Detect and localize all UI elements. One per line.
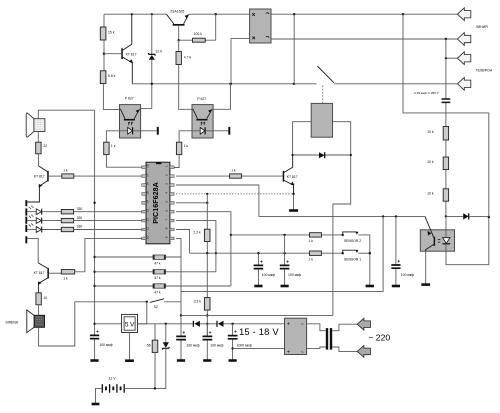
wire sensor2 row y=234.9 [231, 234, 310, 236]
svg-text:3: 3 [164, 183, 168, 185]
svg-text:47 k: 47 k [154, 262, 161, 266]
capacitor C2 100mkf [254, 253, 276, 286]
wire vertical x=403 loop right [403, 14, 490, 265]
svg-text:100 мкф: 100 мкф [401, 273, 414, 277]
svg-text:~: ~ [301, 350, 304, 356]
svg-text:16: 16 [146, 182, 150, 186]
svg-text:13: 13 [146, 209, 150, 213]
svg-text:10: 10 [43, 296, 47, 300]
svg-text:11: 11 [146, 227, 150, 230]
svg-text:15: 15 [146, 191, 150, 195]
capacitor C5 100mkf (bus) [90, 330, 113, 360]
svg-text:1 k: 1 k [63, 169, 68, 173]
wire relay K1 bottom-right / line rail y=39 [271, 38, 457, 40]
svg-text:12 V: 12 V [109, 377, 117, 381]
transistor Q2 2SA1625 [166, 10, 188, 42]
svg-text:SENSOR 2: SENSOR 2 [344, 239, 361, 243]
capacitor C4 100mkf (right) [391, 216, 414, 286]
svg-text:330: 330 [77, 225, 83, 229]
transistor Q5 KT817 (siren driver) [27, 238, 49, 292]
relay K2 [311, 103, 332, 137]
svg-text:6: 6 [164, 210, 168, 212]
resistor R3 100k [179, 14, 216, 42]
svg-text:4: 4 [164, 192, 168, 194]
capacitor C7 100mkf [203, 324, 224, 361]
svg-text:KT 817: KT 817 [126, 52, 137, 56]
svg-text:1 k: 1 k [308, 239, 313, 243]
wire diode supply row y=323.8 [138, 323, 286, 325]
svg-text:15 - 18 V: 15 - 18 V [239, 326, 279, 337]
svg-text:ЛИНИЯ: ЛИНИЯ [476, 25, 489, 29]
svg-text:PIC16F628A: PIC16F628A [151, 182, 160, 224]
svg-text:SENSOR 1: SENSOR 1 [344, 258, 361, 262]
connector arrow ~220 top [357, 318, 370, 330]
svg-text:12 V: 12 V [155, 49, 163, 53]
svg-text:2.2 k: 2.2 k [193, 231, 201, 235]
wire supply row y=315.4 [181, 314, 333, 316]
resistor R21 47k row3 [95, 284, 231, 295]
diode VD3 across coil [293, 152, 351, 158]
svg-text:10 k: 10 k [427, 191, 434, 195]
wire branch y=291.4 to opto U4 line [181, 216, 383, 291]
connector arrow ЛИНИЯ 1 [457, 8, 470, 21]
svg-text:SIRENA: SIRENA [5, 320, 18, 324]
svg-text:1 k: 1 k [63, 277, 68, 281]
voltage regulator U5 5V [95, 302, 147, 361]
wire relay K1 bottom-left to mid rail [231, 39, 250, 84]
wire pin3 to opto U4 collector [176, 185, 425, 218]
resistor R18 10 [36, 293, 47, 315]
svg-text:1 k: 1 k [111, 144, 116, 148]
resistor R23 1k (sensor1) [308, 251, 342, 262]
resistor R2 5.6k [100, 71, 119, 110]
svg-text:1: 1 [164, 165, 168, 167]
connector arrow ~220 bottom [357, 346, 370, 358]
wire mid rail y=83.8 [132, 83, 457, 85]
wire pin5 to node [176, 193, 209, 204]
zener VD9 [127, 324, 170, 389]
resistor R10 1k (pin2 to Q3) [176, 169, 242, 179]
svg-text:KT 817: KT 817 [34, 271, 45, 275]
wire bridge minus [233, 347, 286, 349]
svg-text:10 k: 10 k [427, 130, 434, 134]
svg-text:ТЕЛЕФОН: ТЕЛЕФОН [476, 68, 493, 72]
wire siren to switch S2 row [39, 301, 148, 346]
svg-text:2: 2 [164, 174, 168, 176]
svg-text:P 627: P 627 [197, 97, 206, 101]
switch S2 [150, 299, 181, 309]
resistor R20 47k row2 [95, 270, 216, 281]
ground Q3 emitter [289, 193, 298, 211]
transistor Q1 KT817 (top left) [104, 14, 137, 84]
svg-text:5.6 k: 5.6 k [108, 74, 116, 78]
svg-text:330: 330 [77, 216, 83, 220]
connector arrow ТЕЛЕФОН 1 [445, 52, 471, 65]
diode VD8 [217, 321, 224, 327]
bridge rectifier BR1 [285, 318, 307, 356]
svg-text:22: 22 [43, 144, 47, 148]
capacitor C6 100mkf [176, 331, 200, 360]
optocoupler U4 [420, 216, 454, 251]
svg-text:S2: S2 [154, 305, 158, 309]
svg-text:47 k: 47 k [154, 276, 161, 280]
resistor R15 330 [61, 216, 142, 223]
wire vertical x=294.2 [293, 14, 295, 84]
wire mic to bus [38, 110, 94, 119]
ground sensors [366, 285, 374, 288]
ground opto U4 emitter [421, 251, 430, 284]
wire pin8 to sensor row [176, 230, 190, 254]
LED VD4 row (pin13) [27, 206, 61, 215]
svg-text:100 мкф: 100 мкф [288, 273, 301, 277]
capacitor C1 0.33mkf 250V [414, 39, 450, 126]
optocoupler U2 P627 [120, 97, 141, 138]
resistor R19 47k row1 [95, 255, 181, 266]
capacitor C3 100mkf [280, 235, 302, 286]
wire pin6 chain down to 47k row3 [176, 212, 232, 286]
resistor R25 56 [147, 324, 158, 389]
svg-text:100 мкф: 100 мкф [210, 343, 223, 347]
svg-text:+: + [287, 321, 290, 327]
resistor R24 3.3k [194, 253, 210, 336]
svg-text:0.33 мкф X 250 V: 0.33 мкф X 250 V [414, 91, 440, 95]
svg-text:5: 5 [164, 201, 168, 203]
svg-text:1 k: 1 k [308, 258, 313, 262]
svg-text:4.7 k: 4.7 k [184, 55, 192, 59]
resistor R16 330 [61, 225, 142, 232]
svg-text:+: + [287, 349, 290, 355]
svg-text:P 627: P 627 [125, 97, 134, 101]
svg-text:18: 18 [146, 164, 150, 168]
svg-text:14: 14 [146, 200, 150, 204]
svg-text:100 мкф: 100 мкф [186, 343, 199, 347]
svg-text:KT 817: KT 817 [34, 175, 45, 179]
terminal jack U3 LED right [205, 127, 230, 135]
svg-text:15 k: 15 k [108, 31, 115, 35]
svg-text:8: 8 [164, 227, 168, 229]
wire U3 collector to rail [213, 84, 230, 110]
switch S1 [317, 66, 334, 103]
svg-text:5 V: 5 V [125, 322, 135, 329]
svg-text:12: 12 [146, 218, 150, 222]
transformer T1 [307, 324, 358, 352]
resistor R22 1k (sensor2) [308, 233, 342, 244]
wire relay K2 right lead [333, 122, 352, 316]
wire U3 LED left to R9 1k to pin1 [174, 131, 200, 168]
svg-text:100 мкф: 100 мкф [99, 343, 112, 347]
connector arrow ТЕЛЕФОН 2 [457, 77, 470, 90]
sensor SENSOR1 [342, 250, 371, 262]
svg-text:1000 мкф: 1000 мкф [237, 343, 252, 347]
wire U2 LED left to R8 1k to pin18 [104, 131, 142, 167]
wire relay K2 left lead [291, 122, 311, 157]
wire pin9 chain x=181 [176, 238, 182, 336]
svg-text:47 k: 47 k [154, 290, 161, 294]
resistor R4 4.7k [176, 40, 192, 109]
resistor R6 10k [427, 157, 448, 189]
wire main bus x=94.6 [93, 110, 95, 335]
svg-text:17: 17 [146, 173, 150, 177]
svg-text:2SA1625: 2SA1625 [170, 10, 184, 14]
zener VD1 12V [141, 14, 163, 108]
svg-text:3.3 k: 3.3 k [194, 300, 202, 304]
connector arrow ЛИНИЯ 2 [457, 33, 470, 46]
svg-text:10: 10 [146, 235, 150, 239]
transistor Q3 KT817 (relay driver) [242, 155, 298, 194]
optocoupler U3 P627 [192, 97, 213, 138]
svg-text:330: 330 [77, 207, 83, 211]
svg-text:7: 7 [164, 218, 168, 220]
svg-text:100 мкф: 100 мкф [262, 273, 275, 277]
resistor R1 15k [100, 14, 114, 71]
svg-text:1 k: 1 k [231, 169, 236, 173]
svg-text:KT 817: KT 817 [287, 175, 298, 179]
connector bar strip [25, 200, 27, 243]
IC U1 PIC16F628A [142, 162, 174, 244]
svg-text:100 k: 100 k [194, 32, 203, 36]
LED VD6 row (pin11) [27, 224, 61, 233]
microphone SP1 [26, 113, 45, 137]
resistor R13 1k (Q4 base to pin17) [62, 169, 142, 179]
svg-text:56: 56 [147, 343, 151, 347]
wire top rail y=14.2 [104, 13, 457, 15]
sensor SENSOR2 [342, 232, 370, 286]
wire pin10 loop to Q5 base resistor [75, 238, 142, 271]
svg-text:~ 220: ~ 220 [368, 333, 390, 343]
svg-text:1 k: 1 k [184, 144, 189, 148]
wire sensor1 / supply row y=253.2 [190, 252, 310, 254]
svg-text:~: ~ [301, 322, 304, 328]
diode VD2 [446, 213, 489, 219]
wire pin4 dashed to Q3 emitter [176, 193, 294, 195]
svg-text:9: 9 [164, 236, 168, 238]
terminal jack U2 LED right [133, 127, 159, 135]
resistor R5 10k [427, 126, 448, 157]
capacitor C8 1000mkf [228, 324, 252, 361]
wire pin7 chain [176, 221, 217, 272]
transistor Q4 KT817 (mic amp) [27, 166, 62, 202]
resistor R12 22 [36, 131, 48, 165]
resistor R11 2.2k [193, 194, 210, 253]
resistor R17 1k (Q5 base) [49, 270, 75, 281]
siren SP2 [5, 310, 44, 333]
resistor R14 330 [61, 207, 142, 214]
battery G1 12V [92, 377, 157, 404]
resistor R7 10k [427, 189, 448, 218]
relay K1 [250, 9, 271, 43]
diode VD7 [193, 321, 200, 327]
LED VD5 row (pin12) [27, 215, 61, 224]
svg-text:10 k: 10 k [427, 160, 434, 164]
